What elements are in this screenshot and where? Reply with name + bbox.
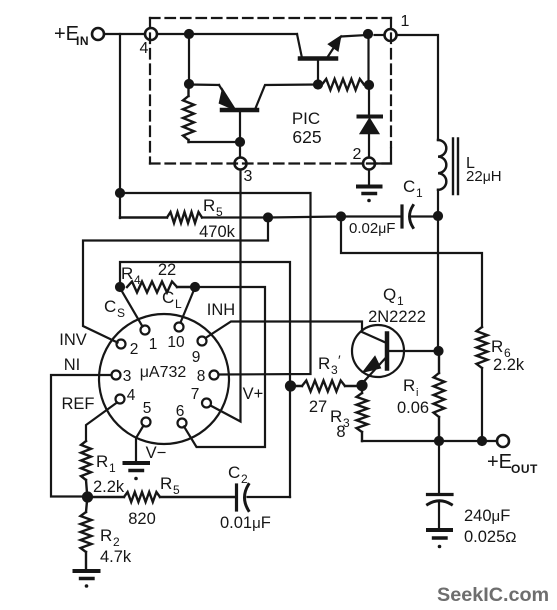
transistor Q-npn base bar [300, 56, 336, 61]
wire resistor to node [364, 83, 369, 86]
junction emitter/resistor [185, 80, 193, 88]
svg-text:22: 22 [158, 261, 176, 279]
ground V- [125, 461, 149, 465]
junction emitter rail [364, 30, 372, 38]
wire pin4 REF to R1 [86, 403, 117, 442]
wire main rail down [437, 216, 439, 351]
wire Cl slant to pin 10 [181, 291, 194, 323]
svg-text:2: 2 [353, 146, 362, 163]
junction C1 right [434, 212, 442, 220]
wire pin3 NI to R1R2 node [51, 375, 111, 497]
transistor Q1 collector [387, 350, 434, 352]
inductor core lines [453, 139, 458, 195]
input terminal +Ein [92, 28, 104, 40]
node pin 4 of PIC [145, 28, 157, 40]
wire to diode [368, 85, 370, 116]
svg-text:′: ′ [338, 352, 341, 368]
resistor R5 470k [120, 212, 202, 223]
svg-text:4: 4 [134, 273, 141, 287]
svg-text:+E: +E [487, 451, 512, 473]
svg-text:R: R [96, 452, 108, 471]
junction base node [236, 138, 244, 146]
resistor PIC internal horizontal [322, 79, 364, 90]
resistor R2 4.7k [81, 501, 92, 570]
wire INV jog [83, 218, 268, 343]
svg-text:L: L [175, 297, 182, 311]
diode D1 body [360, 119, 379, 134]
ground under R2 [75, 569, 99, 573]
svg-text:8: 8 [336, 423, 345, 441]
svg-text:3: 3 [331, 363, 338, 377]
svg-text:V+: V+ [243, 385, 264, 403]
wire Ein to pin4 [105, 33, 145, 35]
wire pin2 corner jog [376, 149, 392, 164]
svg-text:2N2222: 2N2222 [368, 308, 426, 326]
node pin 2 of PIC [363, 158, 375, 170]
wire to pnp emitter [189, 83, 219, 86]
wire main Ein rail drop [119, 34, 121, 218]
transistor Q1 circle [352, 325, 404, 377]
svg-text:1: 1 [149, 336, 158, 353]
wire resistor bottom to base line [189, 141, 241, 143]
svg-text:5: 5 [173, 483, 180, 497]
junction R4 left [116, 283, 124, 291]
junction C1 left [337, 213, 345, 221]
junction R1/R2/820 [83, 493, 92, 502]
node pin 3 of PIC [235, 158, 247, 170]
svg-text:0.025Ω: 0.025Ω [464, 528, 517, 546]
inductor L coil [438, 140, 446, 190]
transistor Q-pnp collector [255, 85, 317, 110]
svg-text:R: R [121, 264, 133, 283]
dashed box PIC 625 [150, 18, 391, 164]
svg-text:PIC: PIC [292, 109, 320, 128]
junction top rail [185, 30, 193, 38]
svg-text:470k: 470k [199, 223, 236, 241]
node pin 1 of PIC [385, 29, 397, 41]
resistor Ri 0.06 [434, 351, 445, 441]
svg-text:9: 9 [192, 349, 201, 366]
junction Ein rail / V+ feed [116, 189, 124, 197]
svg-text:0.01μF: 0.01μF [220, 514, 271, 532]
capacitor C3 curved plate [428, 501, 452, 505]
svg-text:S: S [117, 306, 125, 320]
svg-text:4: 4 [127, 387, 136, 404]
wire R6 to output [481, 368, 483, 441]
svg-text:2.2k: 2.2k [93, 478, 125, 496]
junction output/R6 [478, 437, 486, 445]
svg-text:8: 8 [197, 368, 206, 385]
capacitor C1 plates [400, 206, 403, 227]
svg-text:C: C [228, 463, 240, 482]
svg-text:2.2k: 2.2k [493, 356, 525, 374]
wire C1-left branch to R6 [341, 217, 482, 328]
svg-text:625: 625 [292, 127, 321, 147]
svg-text:1: 1 [416, 186, 423, 200]
svg-text:6: 6 [176, 403, 185, 420]
IC uA732 circle [99, 314, 229, 444]
junction output/Ri [435, 437, 443, 445]
transistor Q1 emitter with arrow [363, 358, 387, 384]
svg-text:1: 1 [397, 294, 404, 308]
svg-text:V−: V− [146, 444, 167, 462]
capacitor C3 240uF top plate [438, 441, 440, 493]
wire Cs slant to pin 1 [122, 291, 143, 327]
resistor R3 8 [357, 390, 368, 441]
svg-text:R: R [100, 526, 112, 545]
wire cap to ground [438, 502, 440, 529]
svg-text:4: 4 [140, 40, 149, 57]
svg-text:R: R [491, 337, 503, 356]
wire node up to rail [367, 34, 369, 85]
svg-text:SeekIC.com: SeekIC.com [437, 584, 549, 606]
wire pin1 to L rail [397, 35, 438, 140]
wire pin5 to V- ground [136, 426, 144, 463]
svg-text:IN: IN [76, 34, 89, 48]
svg-text:5: 5 [143, 400, 152, 417]
svg-text:Q: Q [383, 285, 396, 304]
wire pin1 lead [375, 34, 385, 36]
svg-text:5: 5 [216, 205, 223, 219]
wire top rail inside PIC [158, 33, 298, 35]
svg-text:820: 820 [128, 510, 156, 528]
wire 470k to C1 [202, 217, 401, 218]
svg-text:REF: REF [62, 395, 95, 413]
resistor R6 [477, 327, 488, 368]
wire V+ feed to pin 8 [120, 193, 311, 375]
junction R3' left [286, 382, 295, 391]
svg-text:R: R [403, 376, 415, 395]
wire pnp base down to pin 3 [239, 111, 241, 157]
svg-text:R: R [203, 196, 215, 215]
wire drop to Q-pnp emitter [188, 34, 190, 84]
svg-text:3: 3 [123, 368, 132, 385]
svg-text:C: C [403, 177, 415, 196]
pin circles of uA732 [112, 323, 219, 428]
svg-text:2: 2 [113, 535, 120, 549]
wire diode to pin 2 [368, 133, 370, 158]
svg-text:INV: INV [59, 331, 87, 349]
transistor Q-npn emitter with arrow [327, 35, 367, 58]
svg-text:C: C [104, 297, 116, 316]
wire C1 to rail [412, 215, 435, 217]
wire Cl net right [184, 287, 265, 447]
junction resistor/diode [365, 81, 373, 89]
pin numbers of uA732 [123, 334, 206, 420]
transistor Q-npn collector [297, 34, 302, 58]
svg-text:INH: INH [207, 301, 235, 319]
svg-text:NI: NI [64, 356, 81, 374]
ground under C3 [428, 528, 451, 532]
junction Q1 collector [435, 347, 443, 355]
svg-text:R: R [318, 354, 330, 373]
transistor Q-pnp emitter with arrow [219, 85, 233, 107]
junction npn base [314, 81, 322, 89]
svg-text:10: 10 [167, 334, 185, 351]
svg-text:OUT: OUT [511, 462, 538, 476]
ground under pin 2 [368, 170, 370, 186]
junction R4 right [191, 283, 199, 291]
svg-text:i: i [416, 387, 418, 399]
resistor R1 2.2k [81, 441, 91, 493]
svg-text:4.7k: 4.7k [100, 548, 132, 566]
svg-text:μA732: μA732 [140, 364, 187, 381]
svg-text:R: R [160, 474, 172, 493]
svg-text:3: 3 [244, 168, 253, 185]
diode D1 (zener) cathode bar [359, 115, 382, 119]
svg-text:240μF: 240μF [464, 507, 510, 525]
capacitor C2 plates [235, 485, 238, 510]
transistor Q-npn base lead [317, 59, 319, 84]
wire output rail [362, 440, 497, 442]
transistor Q-pnp base bar [222, 108, 257, 113]
svg-text:2: 2 [130, 341, 139, 358]
wire pin 3 down to uA732 pin 7 (V+) [211, 170, 241, 422]
svg-text:1: 1 [401, 13, 410, 30]
wire INH to Q1 base [206, 322, 386, 343]
svg-text:0.06: 0.06 [397, 399, 429, 417]
transistor Q1 base bar [385, 334, 390, 369]
svg-text:0.02μF: 0.02μF [349, 220, 395, 237]
junction Q1 emitter / R3' / R3 [358, 381, 367, 390]
wire Cs net top [120, 262, 290, 497]
svg-text:7: 7 [191, 386, 200, 403]
output terminal +Eout [497, 435, 509, 447]
wire coil to C1 node [437, 190, 439, 216]
svg-text:27: 27 [309, 398, 327, 416]
resistor R3' 27 [295, 381, 358, 392]
resistor R-bias (PIC internal vertical) [183, 88, 194, 142]
junction 470k / INV tap [264, 214, 272, 222]
svg-text:C: C [162, 288, 174, 307]
resistor R4 22 [127, 282, 191, 293]
svg-text:1: 1 [109, 461, 116, 475]
svg-text:22μH: 22μH [466, 168, 502, 185]
wire C2 to R3' riser [248, 496, 291, 498]
resistor R5 820 [91, 492, 235, 502]
svg-text:2: 2 [241, 472, 248, 486]
